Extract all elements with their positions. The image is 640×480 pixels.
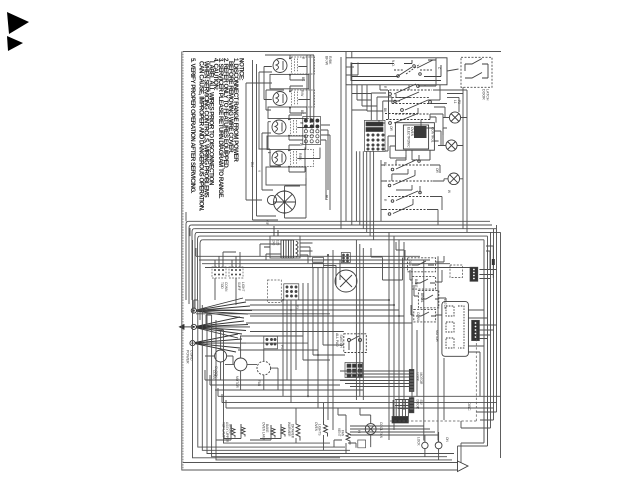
- surface switch S4: [272, 151, 286, 165]
- wire: secondary bus band: [196, 256, 470, 267]
- svg-text:OVEN: OVEN: [314, 422, 318, 432]
- svg-text:LOCK: LOCK: [416, 373, 420, 383]
- svg-text:SURF: SURF: [237, 282, 241, 291]
- surface element LR (dashed): [291, 150, 314, 167]
- labels bottom components: [222, 422, 384, 443]
- svg-text:BROIL: BROIL: [229, 424, 233, 434]
- fold arrow: [458, 461, 469, 472]
- label: strip P4: [416, 373, 424, 386]
- wire: relay stack leads: [396, 242, 446, 315]
- label: relay stack: [408, 260, 447, 343]
- svg-text:R: R: [383, 86, 387, 89]
- svg-text:LATCH: LATCH: [486, 89, 490, 101]
- svg-text:240: 240: [272, 240, 276, 246]
- svg-text:DRAWER: DRAWER: [291, 424, 295, 439]
- wire: bus left corner drops: [186, 221, 203, 320]
- power supply terminal N: [191, 317, 250, 338]
- transformer T1: [264, 226, 300, 258]
- svg-text:CAN CAUSE, IMPROPER AND DANGER: CAN CAUSE, IMPROPER AND DANGEROUS OPERAT…: [198, 61, 205, 212]
- power supply terminal L1: [191, 298, 252, 318]
- wire: bus left risers to notice area: [186, 212, 224, 343]
- svg-text:SWITCH: SWITCH: [339, 335, 343, 349]
- broil element resistor: [231, 424, 245, 438]
- relay K1 (dashed): [408, 258, 436, 272]
- svg-text:POWER: POWER: [186, 350, 190, 364]
- svg-text:BAKE: BAKE: [414, 279, 418, 288]
- label: module boxes: [220, 282, 245, 292]
- wire label: switch cluster: [383, 86, 461, 131]
- wire: lower switch interconnects: [381, 150, 463, 225]
- connector J4 pins: [284, 284, 299, 300]
- svg-text:W: W: [447, 190, 451, 193]
- surface switch S3: [272, 120, 286, 134]
- wire: element bus verticals: [264, 55, 330, 218]
- svg-text:BK: BK: [383, 108, 387, 113]
- label: DLB inset: [391, 60, 441, 70]
- warmer element resistor 2: [324, 421, 328, 437]
- clock motor circle: [215, 350, 227, 362]
- lockout switch assembly: [344, 334, 367, 353]
- svg-text:CONV: CONV: [416, 312, 420, 322]
- svg-text:LIGHTS: LIGHTS: [318, 424, 322, 436]
- svg-text:P3: P3: [295, 305, 299, 309]
- svg-text:CONTROL: CONTROL: [431, 127, 435, 143]
- svg-text:DOOR: DOOR: [482, 89, 486, 100]
- lower oven light: [448, 173, 460, 185]
- oven switch row 3: [386, 114, 430, 125]
- svg-text:ON: ON: [445, 437, 449, 442]
- ERC control board: [395, 123, 434, 151]
- wire: ribbon below P2: [356, 151, 373, 240]
- oven vent resistor: [346, 429, 350, 445]
- wire: right bus bundle: [461, 225, 501, 458]
- wire: switch cluster interconnects: [346, 58, 463, 160]
- sheet bottom border with fold arrow: [182, 52, 488, 471]
- surface switch S2: [273, 92, 287, 106]
- dashed OBC enclosure bottom: [390, 330, 476, 421]
- svg-text:BU: BU: [250, 162, 254, 167]
- svg-text:BAKE: BAKE: [265, 424, 269, 433]
- dashed module box: [268, 280, 282, 303]
- label: transformer: [272, 240, 280, 246]
- label: clock area: [212, 305, 299, 389]
- svg-text:COOL FAN: COOL FAN: [379, 422, 383, 439]
- svg-text:VENT: VENT: [337, 428, 341, 437]
- ERC text block: [407, 126, 435, 148]
- svg-text:LATCH: LATCH: [443, 299, 447, 310]
- connector grid mid-left: [341, 253, 350, 263]
- svg-text:R/BK: R/BK: [298, 153, 302, 161]
- svg-text:5. VERIFY PROPER OPERATION AFT: 5. VERIFY PROPER OPERATION AFTER SERVICI…: [189, 58, 196, 194]
- spark module box A: [212, 267, 226, 278]
- connector strip P4 (vertical): [409, 369, 414, 391]
- motor circle M3 (dashed): [257, 361, 271, 375]
- connector strip P5 (vertical): [409, 398, 414, 413]
- svg-text:OVEN: OVEN: [410, 127, 414, 137]
- wire: clock area links: [205, 356, 278, 390]
- svg-text:W: W: [299, 143, 303, 146]
- svg-text:DLB: DLB: [408, 260, 412, 266]
- svg-text:ELECTRONIC: ELECTRONIC: [407, 127, 411, 148]
- svg-text:MOTOR: MOTOR: [419, 373, 423, 386]
- svg-text:FAN: FAN: [341, 430, 345, 437]
- wire: bottom bus bundle: [216, 396, 501, 460]
- svg-text:TOP LAMP: TOP LAMP: [222, 422, 226, 438]
- svg-text:OR: OR: [435, 168, 439, 173]
- door latch switch contacts: [465, 59, 488, 79]
- oven switch row 4: [385, 92, 430, 114]
- oven light OL1: [449, 112, 460, 123]
- lower oven switch row 2: [385, 176, 433, 187]
- small box lower right of center: [450, 265, 463, 278]
- warmer element resistor: [296, 420, 300, 441]
- surface element RF (dashed): [292, 57, 315, 74]
- svg-text:N.O.: N.O.: [391, 60, 395, 67]
- connector P2: [364, 120, 385, 151]
- svg-text:OR: OR: [389, 126, 393, 131]
- wire: center vertical drops: [356, 232, 444, 440]
- svg-text:C: C: [437, 67, 441, 70]
- ground arrow: [180, 325, 191, 329]
- relay box DLB (solid inset): [346, 58, 447, 85]
- element row frames: [266, 74, 309, 185]
- wire label: element leads: [257, 57, 305, 226]
- bake element resistor: [271, 424, 285, 438]
- svg-text:120: 120: [276, 240, 280, 246]
- svg-text:R: R: [299, 122, 303, 125]
- oven switch row 2 (bake): [392, 100, 433, 114]
- label clock: [214, 366, 218, 378]
- svg-text:BK: BK: [300, 110, 304, 115]
- connector grid lower left: [345, 363, 363, 378]
- label: power cord: [186, 350, 194, 364]
- svg-text:WARMER: WARMER: [287, 422, 291, 437]
- svg-text:R: R: [383, 199, 387, 202]
- connector P10: [392, 416, 408, 423]
- svg-text:Y: Y: [257, 170, 261, 173]
- svg-text:OVEN LAMP: OVEN LAMP: [262, 422, 266, 441]
- lower oven switch row 4: [385, 205, 428, 216]
- cooling fan motor: [365, 424, 376, 435]
- label: strip P5: [416, 400, 424, 410]
- wire: center column verticals: [250, 250, 345, 430]
- wire: module box leads: [215, 252, 240, 305]
- svg-text:FAN: FAN: [257, 380, 261, 387]
- svg-text:R/BK: R/BK: [328, 56, 332, 65]
- pointer to door latch inset: [447, 69, 459, 71]
- indicator light PL1: [422, 440, 428, 451]
- connector J3 pins: [264, 336, 278, 349]
- svg-text:SW: SW: [419, 400, 423, 405]
- label OBC: [467, 402, 472, 411]
- svg-text:CONN: CONN: [224, 282, 228, 292]
- label: door latch: [482, 89, 490, 101]
- svg-text:OBC: OBC: [467, 402, 472, 411]
- surface element center 8in: [267, 191, 295, 213]
- indicator light PL2: [435, 440, 442, 451]
- lower oven switch row 3: [388, 191, 430, 202]
- door latch switch (dashed inset): [461, 57, 492, 87]
- bottom-left nested wire corners: [193, 240, 455, 460]
- wire: transformer leads: [260, 243, 340, 285]
- scan artifact corner marks: [7, 12, 29, 51]
- P10 ribbon and connector: [393, 400, 408, 416]
- relay K3 (dashed): [418, 291, 439, 308]
- svg-text:BK: BK: [301, 77, 305, 82]
- svg-text:LIGHT: LIGHT: [241, 282, 245, 291]
- svg-text:R/W: R/W: [300, 90, 304, 96]
- svg-text:L1: L1: [453, 100, 457, 104]
- connector strip upper right: [470, 267, 478, 281]
- labels indicator lights: [417, 437, 450, 447]
- svg-text:P4: P4: [280, 345, 284, 349]
- surface element RR (dashed): [291, 119, 314, 136]
- connector P1: [303, 117, 321, 145]
- oven light OL2: [446, 140, 457, 151]
- relay K4 (dashed): [414, 309, 436, 322]
- label lockout: [335, 333, 343, 348]
- sheet top border: [183, 51, 501, 53]
- sheet left border: [182, 51, 184, 470]
- notice text block: [189, 58, 245, 212]
- svg-text:MOTOR: MOTOR: [235, 376, 239, 389]
- wire: strip feeds: [340, 371, 409, 409]
- wire labels left column: [250, 56, 332, 200]
- power supply terminal L2: [190, 334, 246, 352]
- svg-text:R: R: [301, 57, 305, 60]
- svg-text:CONV: CONV: [212, 370, 216, 380]
- wire: middle horizontal bus band: [189, 221, 492, 240]
- surface switch S1: [273, 59, 287, 73]
- lower oven switch row 1: [388, 160, 431, 171]
- svg-text:TOD: TOD: [220, 282, 224, 289]
- wire: lower mid horizontals: [196, 310, 363, 408]
- svg-text:DOOR: DOOR: [416, 400, 420, 410]
- wire: power fan feeders: [205, 300, 412, 390]
- svg-text:MOTOR: MOTOR: [435, 330, 439, 343]
- relay contacts inside DLB: [352, 60, 441, 77]
- relay K2 (dashed): [412, 277, 435, 290]
- svg-text:P2: P2: [457, 100, 461, 104]
- oven switch row 1 (broil): [386, 84, 432, 95]
- svg-text:BROIL: BROIL: [420, 293, 424, 303]
- motor circle M2: [234, 358, 247, 371]
- spark module box B: [229, 267, 243, 278]
- surface element LF (dashed): [292, 90, 315, 107]
- svg-text:BK/W: BK/W: [325, 56, 329, 66]
- misc connector small boxes right of transformer: [313, 258, 324, 268]
- wire: control cluster verticals: [341, 52, 501, 236]
- label: lower switches: [383, 162, 451, 202]
- junction dots middle: [282, 254, 400, 397]
- convection motor: [335, 270, 357, 292]
- svg-text:BU: BU: [325, 195, 329, 200]
- wire: element terminal dots: [284, 57, 292, 214]
- wire: element feed loop: [246, 55, 314, 220]
- latch motor block: [442, 302, 469, 357]
- svg-text:LOCK: LOCK: [417, 437, 421, 447]
- connector strip right (dark): [472, 320, 480, 340]
- lower middle section frame: [371, 248, 403, 280]
- svg-text:BK: BK: [383, 162, 387, 167]
